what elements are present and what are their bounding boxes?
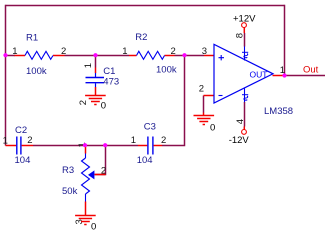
svg-text:104: 104	[15, 155, 31, 166]
wire right vertical (output to feedback)	[284, 5, 286, 76]
wire R2 pin2 to node B	[175, 55, 185, 57]
wire left vertical (feedback to C2)	[5, 5, 7, 146]
wire left to R1 pin1	[6, 55, 16, 57]
op-amp U1 LM358	[204, 44, 285, 103]
svg-text:1: 1	[3, 135, 8, 146]
ground at R3	[75, 216, 96, 225]
wire C2 pin2 to C3 pin1	[33, 145, 138, 147]
resistor R1	[15, 51, 65, 59]
wire output to Out port	[285, 75, 326, 77]
svg-text:1: 1	[83, 63, 94, 68]
wire node B to op-amp pin3	[185, 55, 205, 57]
svg-text:R1: R1	[26, 33, 38, 44]
svg-text:LM358: LM358	[264, 106, 293, 117]
capacitor C2	[6, 137, 34, 155]
junction node A (R1/R2/C1)	[93, 53, 97, 57]
svg-text:1: 1	[122, 46, 127, 57]
svg-text:2: 2	[171, 46, 176, 57]
-12V power symbol	[242, 102, 247, 134]
junction node at R1 input (left rail)	[3, 53, 7, 57]
wire node B down to C3 pin2	[162, 56, 185, 146]
svg-text:2: 2	[27, 135, 32, 146]
ground at C1	[85, 96, 106, 105]
potentiometer R3	[82, 147, 106, 216]
svg-text:2: 2	[78, 100, 89, 105]
svg-text:+12V: +12V	[233, 13, 256, 24]
wire node A to R2 pin1	[96, 55, 130, 57]
svg-text:R3: R3	[62, 165, 74, 176]
wire node A down to C1	[95, 56, 97, 68]
svg-text:2: 2	[101, 165, 106, 176]
svg-text:2: 2	[61, 46, 66, 57]
svg-text:1: 1	[131, 135, 136, 146]
capacitor C3	[138, 137, 162, 155]
ground at op-amp pin2	[194, 113, 215, 125]
junction node output	[282, 73, 286, 77]
+12V power symbol	[242, 23, 247, 47]
svg-text:50k: 50k	[62, 186, 78, 197]
svg-text:3: 3	[202, 46, 207, 57]
svg-text:Out: Out	[303, 64, 319, 75]
svg-text:-12V: -12V	[229, 135, 250, 146]
svg-text:100k: 100k	[26, 66, 47, 77]
svg-text:104: 104	[137, 155, 153, 166]
wire R1 pin2 to node A	[65, 55, 96, 57]
resistor R2	[129, 51, 175, 59]
wire op-amp pin2 to ground	[203, 96, 205, 113]
capacitor C1	[86, 68, 105, 96]
svg-text:0: 0	[91, 221, 96, 232]
svg-text:100k: 100k	[156, 64, 177, 75]
svg-text:473: 473	[103, 76, 119, 87]
junction node R3 top	[83, 143, 87, 147]
svg-text:C2: C2	[15, 125, 27, 136]
svg-text:2: 2	[161, 135, 166, 146]
svg-text:R2: R2	[135, 32, 147, 43]
junction node B (R2/pin3/C3)	[182, 53, 186, 57]
svg-text:2: 2	[199, 84, 204, 95]
junction node R3 wiper	[103, 143, 107, 147]
wire node D down to R3 wiper	[95, 146, 106, 175]
svg-text:0: 0	[210, 123, 215, 134]
svg-text:C1: C1	[103, 66, 115, 77]
svg-text:1: 1	[12, 46, 17, 57]
svg-text:C3: C3	[144, 122, 156, 133]
svg-text:0: 0	[101, 100, 106, 111]
svg-text:OUT: OUT	[250, 70, 268, 80]
wire feedback top horizontal	[6, 5, 285, 7]
